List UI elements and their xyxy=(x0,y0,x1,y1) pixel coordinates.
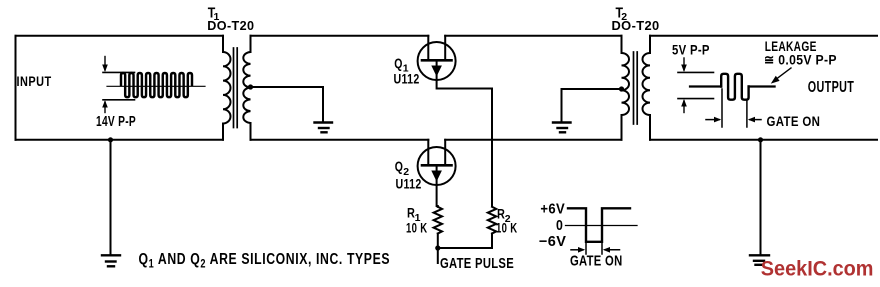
output waveform: chopped burst xyxy=(721,74,748,100)
wire: Q2 gate down to R1 xyxy=(436,185,438,206)
wire: Q1 gate down, right, and down to R2 xyxy=(437,80,492,206)
gate on dimension arrow left xyxy=(706,119,719,121)
dimension: down arrow to 5V upper line xyxy=(683,58,685,70)
input sine waveform burst xyxy=(121,73,192,97)
wire: left input rail xyxy=(15,36,17,140)
svg-text:Q: Q xyxy=(394,56,402,72)
svg-text:14V P-P: 14V P-P xyxy=(96,113,136,129)
wire: top output wire xyxy=(650,35,877,37)
dimension: 14V lower reference line xyxy=(103,99,135,101)
transistor Q1 gate arrow xyxy=(436,60,438,80)
svg-text:GATE ON: GATE ON xyxy=(767,113,821,129)
gate pulse waveform: edge ticks xyxy=(585,242,587,254)
svg-text:Q: Q xyxy=(395,159,403,175)
node: junction dot bottom-right xyxy=(758,137,763,142)
dimension: 14V upper reference line xyxy=(103,71,135,73)
wire: bottom wire Q2 right lead to T2 primary xyxy=(445,139,621,141)
ground: right ground symbol xyxy=(750,255,769,264)
transistor Q1 circle xyxy=(418,42,456,80)
wire: gate pulse stub xyxy=(437,248,439,263)
ground: left ground symbol xyxy=(102,255,120,266)
svg-text:SeekIC.com: SeekIC.com xyxy=(761,257,874,281)
wire: R1/R2 bottom joining wire xyxy=(438,247,492,249)
dimension: 5V lower reference line xyxy=(678,98,714,100)
svg-text:0: 0 xyxy=(556,217,563,233)
gate pulse dimension arrow left xyxy=(571,249,583,251)
svg-text:5V P-P: 5V P-P xyxy=(672,41,710,57)
wire: bottom output wire xyxy=(650,139,877,141)
node: T1 secondary center tap dot xyxy=(248,84,253,89)
svg-text:GATE ON: GATE ON xyxy=(570,252,622,269)
transistor Q2 leads and channel bar xyxy=(427,140,429,166)
wire: top wire Q1 to T2 primary xyxy=(445,35,621,37)
svg-text:U112: U112 xyxy=(394,71,420,87)
gate on ticks under output waveform xyxy=(721,89,723,127)
transistor Q2 circle xyxy=(418,147,456,185)
dimension: down arrow to upper line xyxy=(104,57,106,71)
wire: bottom wire from input to T1 primary xyxy=(16,139,224,141)
transformer T1 core xyxy=(233,48,235,128)
input sine waveform centre line xyxy=(107,85,205,87)
resistor R1 xyxy=(434,207,442,234)
svg-text:−6V: −6V xyxy=(539,234,566,250)
ground: T1 center-tap ground symbol xyxy=(315,123,333,133)
wire: T2 center tap to ground xyxy=(562,89,622,122)
node: gate pulse junction dot xyxy=(435,245,440,250)
gate pulse waveform: +6V top line and pulse xyxy=(568,208,630,242)
svg-text:INPUT: INPUT xyxy=(17,74,52,90)
transistor Q1 leads and channel bar xyxy=(427,36,429,61)
dimension: 5V upper reference line xyxy=(678,71,714,73)
svg-text:DO-T20: DO-T20 xyxy=(612,18,660,33)
svg-text:10 K: 10 K xyxy=(406,220,427,236)
note Q1 AND Q2 ARE SILICONIX, INC. TYPES xyxy=(139,251,391,271)
svg-text:Q1 AND Q2 ARE SILICONIX, INC.: Q1 AND Q2 ARE SILICONIX, INC. TYPES xyxy=(139,251,391,271)
svg-text:GATE PULSE: GATE PULSE xyxy=(440,254,514,271)
node: junction dot bottom-left xyxy=(108,137,113,142)
transformer T2 primary winding xyxy=(621,36,629,140)
gate on dimension arrow right xyxy=(750,119,761,121)
transformer T1 secondary winding xyxy=(243,36,250,140)
gate pulse dimension arrow right xyxy=(605,249,620,251)
svg-text:DO-T20: DO-T20 xyxy=(207,18,254,33)
svg-text:OUTPUT: OUTPUT xyxy=(808,78,855,96)
ground: T2 center-tap ground symbol xyxy=(553,123,571,133)
svg-text:+6V: +6V xyxy=(540,201,565,217)
output waveform: left baseline xyxy=(690,85,721,87)
gate pulse waveform: zero line xyxy=(566,225,638,227)
svg-text:U112: U112 xyxy=(396,176,422,192)
dimension: up arrow to lower line xyxy=(104,102,106,113)
svg-text:10 K: 10 K xyxy=(496,220,517,236)
wire: T1 center tap to ground xyxy=(251,87,324,122)
svg-text:≅ 0.05V P-P: ≅ 0.05V P-P xyxy=(764,52,837,68)
wire: stem to left ground xyxy=(110,140,112,255)
wire: stem to right ground xyxy=(760,140,762,255)
node: T2 primary center tap dot xyxy=(619,86,624,91)
leakage pointer arrow xyxy=(775,68,791,80)
wire: bottom wire T1 to Q2 left lead xyxy=(251,139,429,141)
wire: top wire T1 to Q1 xyxy=(251,35,429,37)
transformer T1 primary winding xyxy=(223,36,230,140)
output waveform: right baseline xyxy=(749,85,775,87)
transistor Q2 gate arrow xyxy=(436,165,438,185)
transformer T2 core xyxy=(633,52,635,124)
resistor R2 xyxy=(488,207,496,234)
transformer T2 secondary winding xyxy=(642,36,650,140)
wire: top wire from input to T1 primary xyxy=(16,35,224,37)
dimension: up arrow to 5V lower line xyxy=(683,101,685,113)
